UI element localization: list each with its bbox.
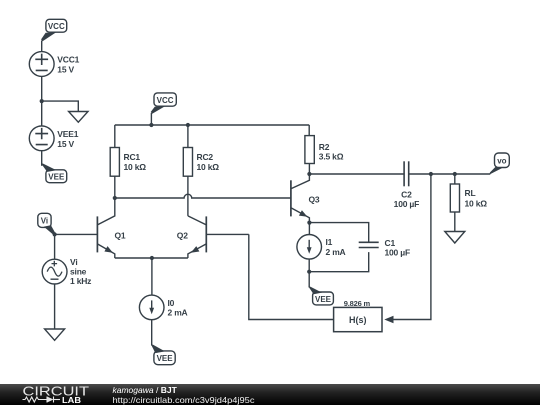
node RL tap (453, 172, 457, 176)
svg-text:RL: RL (465, 188, 476, 198)
net flag VCC (rail) (151, 93, 177, 125)
wire VEE1 to VEE flag (41, 151, 43, 166)
svg-text:Vi: Vi (41, 217, 48, 226)
transistor Q3 (291, 174, 320, 223)
node RC2 tap on rail (186, 123, 190, 127)
svg-text:VEE1: VEE1 (57, 129, 78, 139)
wire rail to RC2 (187, 125, 189, 148)
transistor Q1 (97, 198, 126, 258)
net flag VCC (top left) (41, 19, 67, 51)
wire Vi node to Q1 base (55, 233, 98, 235)
node I1 bottom (307, 270, 311, 274)
wire I1 bottom to node (308, 259, 310, 272)
current source I1 (297, 235, 346, 260)
net flag vo (489, 153, 509, 175)
svg-text:2 mA: 2 mA (168, 307, 188, 317)
wire junction to VEE1 (41, 101, 43, 126)
resistor RC1 (110, 148, 146, 177)
block H(s) (334, 299, 382, 331)
resistor R2 (305, 136, 344, 164)
svg-text:VCC1: VCC1 (57, 55, 79, 65)
capacitor C1 (359, 238, 410, 258)
wire RC2 bottom to Q2 collector (187, 176, 189, 216)
wire R2 bottom to Q3 collector node (308, 164, 310, 175)
wire I0 to VEE flag (151, 320, 153, 346)
svg-text:Vi: Vi (70, 257, 77, 267)
wire node to RL (454, 174, 456, 184)
wire Q3 collector to C2 (309, 173, 404, 175)
node feedback tap (429, 172, 433, 176)
svg-text:Q2: Q2 (177, 230, 188, 240)
svg-text:I1: I1 (326, 237, 333, 247)
net flag Vi (38, 213, 56, 235)
net flag VEE (below I1) (308, 286, 333, 305)
wire Q2 base to feedback corner (206, 233, 249, 235)
svg-text:2 mA: 2 mA (326, 247, 346, 257)
voltage source VCC1 (29, 52, 79, 77)
svg-text:100 µF: 100 µF (394, 199, 419, 209)
svg-text:vo: vo (497, 156, 506, 165)
wire VCC rail (115, 124, 309, 126)
wire H(s) output to Q2 base corner (249, 234, 334, 319)
svg-text:10 kΩ: 10 kΩ (124, 162, 147, 172)
wire emitters to I0 (151, 258, 153, 295)
svg-text:VEE: VEE (157, 354, 174, 363)
svg-text:10 kΩ: 10 kΩ (197, 162, 220, 172)
wire I1 node to VEE flag (308, 272, 310, 288)
voltage source Vi (sine) (42, 257, 91, 286)
wire RL to ground (454, 212, 456, 232)
svg-text:15 V: 15 V (57, 139, 74, 149)
svg-text:C2: C2 (401, 189, 412, 199)
svg-text:http://circuitlab.com/c3v9jd4p: http://circuitlab.com/c3v9jd4p4j95c (113, 395, 256, 405)
node VCC tap on rail (149, 123, 153, 127)
wire feedback from output node down (394, 174, 431, 320)
wire RC1 bottom to node (114, 176, 116, 198)
svg-text:RC2: RC2 (197, 152, 214, 162)
svg-text:R2: R2 (319, 142, 330, 152)
svg-text:9.826 m: 9.826 m (344, 299, 371, 308)
svg-text:100 µF: 100 µF (385, 248, 410, 258)
wire rail corner to R2 (308, 125, 310, 136)
ground (Vi) (45, 329, 65, 340)
resistor RL (450, 184, 487, 212)
wire Q3 emitter to C1 top (309, 223, 368, 243)
svg-text:kamogawa / BJT: kamogawa / BJT (113, 385, 178, 395)
node RC1/Q1 collector (113, 196, 117, 200)
wire node to C1 bottom (309, 252, 369, 272)
wire VCC1 bottom to junction (41, 76, 43, 101)
node Q3 collector (307, 172, 311, 176)
logo resistor-diode symbol (23, 397, 61, 403)
svg-text:10 kΩ: 10 kΩ (465, 199, 488, 209)
svg-text:3.5 kΩ: 3.5 kΩ (319, 152, 344, 162)
svg-text:C1: C1 (385, 238, 396, 248)
node Vi tap (53, 232, 57, 236)
ground (RL) (445, 232, 465, 244)
net flag VEE (below I0) (151, 344, 175, 364)
capacitor C2 (394, 161, 419, 209)
voltage source VEE1 (29, 126, 78, 151)
svg-text:VCC: VCC (157, 96, 174, 105)
wire Vi source to ground (54, 284, 56, 329)
transistor Q2 (177, 216, 207, 258)
node junction (sources midpoint) (40, 99, 44, 103)
svg-text:VEE: VEE (315, 295, 332, 304)
wire Vi node down to source (54, 234, 56, 259)
wire C2 to vo flag (409, 173, 491, 175)
svg-text:VEE: VEE (48, 173, 65, 182)
resistor RC2 (183, 148, 219, 177)
svg-text:1 kHz: 1 kHz (70, 276, 91, 286)
svg-text:LAB: LAB (62, 396, 81, 405)
arrowhead into H(s) (384, 316, 393, 324)
svg-text:15 V: 15 V (57, 65, 74, 75)
wire shared emitters (115, 257, 188, 259)
ground (sources) (69, 112, 88, 123)
svg-text:sine: sine (70, 267, 87, 277)
net flag VEE (below VEE1) (41, 163, 67, 183)
svg-text:RC1: RC1 (124, 152, 141, 162)
svg-text:H(s): H(s) (349, 315, 367, 325)
node emitters junction (150, 256, 154, 260)
svg-text:VCC: VCC (48, 22, 65, 31)
svg-text:I0: I0 (168, 298, 175, 308)
wire rail to RC1 (114, 125, 116, 148)
wire junction to ground (42, 101, 79, 111)
wire node to Q3 base (hop over RC2 wire) (115, 194, 291, 198)
current source I0 (139, 295, 187, 320)
node Q3 emitter (307, 221, 311, 225)
svg-text:Q3: Q3 (309, 195, 320, 205)
wire Q3 emitter to I1 (308, 223, 310, 236)
svg-text:Q1: Q1 (115, 230, 126, 240)
